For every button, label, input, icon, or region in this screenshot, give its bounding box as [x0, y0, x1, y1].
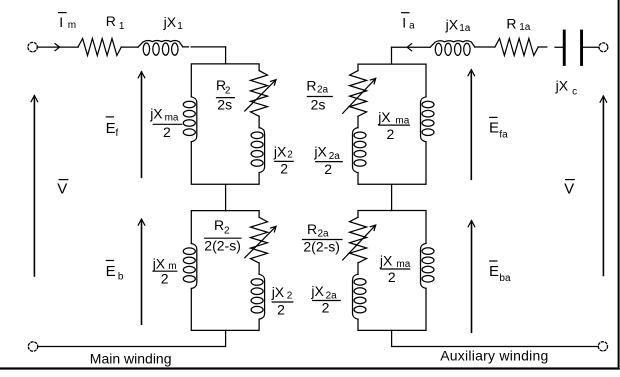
svg-text:Main winding: Main winding: [90, 351, 172, 367]
svg-text:E: E: [489, 263, 499, 280]
svg-text:2: 2: [280, 160, 288, 176]
svg-text:jX: jX: [271, 284, 285, 300]
svg-text:m: m: [68, 20, 76, 31]
svg-text:2: 2: [287, 291, 293, 302]
svg-text:R: R: [214, 217, 224, 233]
svg-text:R: R: [506, 15, 516, 31]
svg-text:E: E: [106, 263, 116, 280]
svg-text:2: 2: [322, 300, 330, 316]
svg-text:jX: jX: [377, 109, 391, 125]
svg-text:ba: ba: [499, 273, 511, 284]
svg-text:jX: jX: [163, 14, 177, 30]
svg-text:jX: jX: [310, 283, 324, 299]
svg-text:1a: 1a: [519, 22, 531, 33]
svg-text:jX: jX: [149, 105, 163, 121]
svg-text:jX: jX: [313, 143, 327, 159]
svg-text:1a: 1a: [459, 23, 471, 34]
svg-text:R: R: [307, 221, 317, 237]
svg-text:2: 2: [388, 269, 396, 285]
svg-text:2a: 2a: [317, 85, 329, 96]
svg-text:2: 2: [277, 301, 285, 317]
svg-text:2: 2: [163, 124, 171, 140]
svg-text:2: 2: [224, 226, 230, 237]
svg-text:jX: jX: [273, 143, 287, 159]
svg-text:m: m: [168, 261, 176, 272]
svg-text:f: f: [116, 128, 119, 139]
svg-text:I: I: [59, 14, 63, 30]
svg-text:2(2-s): 2(2-s): [303, 238, 340, 254]
svg-text:jX: jX: [152, 256, 166, 272]
svg-text:2s: 2s: [217, 96, 232, 112]
svg-text:E: E: [489, 119, 499, 136]
svg-text:Auxiliary winding: Auxiliary winding: [440, 347, 548, 363]
svg-text:2: 2: [161, 271, 169, 287]
svg-text:2s: 2s: [311, 96, 326, 112]
svg-text:c: c: [572, 86, 577, 97]
svg-text:I: I: [402, 15, 406, 31]
svg-text:a: a: [409, 20, 415, 31]
svg-text:2: 2: [287, 150, 293, 161]
svg-text:ma: ma: [396, 259, 410, 270]
svg-text:1: 1: [177, 21, 183, 32]
svg-text:2: 2: [225, 85, 231, 96]
svg-text:V: V: [564, 181, 574, 198]
svg-text:1: 1: [119, 21, 125, 32]
svg-text:ma: ma: [165, 112, 179, 123]
svg-text:b: b: [118, 271, 124, 282]
svg-text:R: R: [106, 13, 116, 29]
svg-text:R: R: [306, 77, 316, 93]
svg-text:jX: jX: [379, 253, 393, 269]
svg-text:V: V: [57, 181, 67, 198]
svg-text:jX: jX: [445, 16, 459, 32]
svg-text:2: 2: [387, 126, 395, 142]
svg-text:2(2-s): 2(2-s): [204, 237, 241, 253]
svg-text:ma: ma: [395, 115, 409, 126]
svg-text:jX: jX: [555, 77, 569, 93]
svg-text:E: E: [106, 120, 116, 137]
svg-text:2: 2: [324, 161, 332, 177]
svg-text:fa: fa: [499, 130, 508, 141]
